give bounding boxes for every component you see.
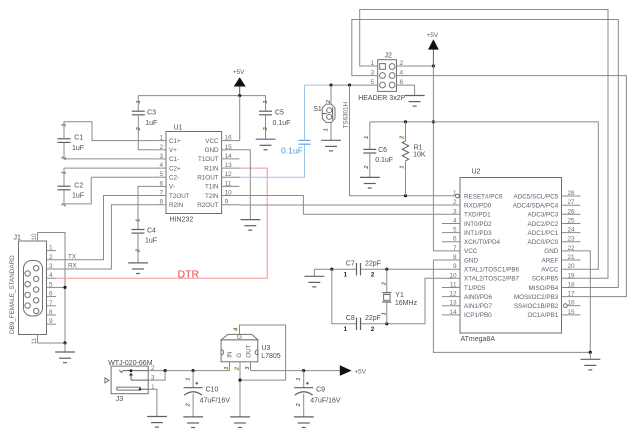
wire J2 pin2 to +5V	[397, 65, 434, 67]
node J3 pins junction	[164, 369, 167, 372]
wire input rail J3 to U3	[148, 370, 229, 372]
svg-text:V-: V-	[169, 184, 175, 191]
svg-text:AIN1/PD7: AIN1/PD7	[464, 303, 492, 310]
svg-text:18: 18	[568, 282, 576, 289]
svg-text:6: 6	[453, 236, 457, 243]
capacitor blue 0.1uF	[281, 85, 331, 155]
svg-text:MISO/PB4: MISO/PB4	[529, 285, 559, 292]
svg-text:T1IN: T1IN	[205, 184, 219, 191]
svg-text:2: 2	[371, 271, 375, 278]
svg-text:ADC3/PC3: ADC3/PC3	[528, 212, 559, 219]
svg-text:AVCC: AVCC	[541, 267, 558, 274]
svg-text:GND: GND	[205, 147, 219, 154]
wire U2 GND pin8 to bottom rail	[433, 260, 590, 352]
svg-text:C4: C4	[147, 227, 156, 234]
svg-text:4: 4	[234, 327, 240, 332]
op-amp U1 HIN232 body	[166, 125, 222, 224]
svg-text:WTJ-020-66M: WTJ-020-66M	[108, 360, 153, 367]
svg-text:T1/PD5: T1/PD5	[464, 285, 486, 292]
capacitor C8 22pF	[344, 315, 381, 333]
U2 left pin names	[464, 193, 520, 319]
svg-text:1: 1	[136, 219, 142, 222]
node J1 pin5 junction	[63, 286, 66, 289]
svg-text:1: 1	[159, 135, 163, 142]
svg-text:HIN232: HIN232	[170, 217, 194, 224]
svg-text:1: 1	[62, 124, 68, 127]
svg-text:C8: C8	[346, 315, 355, 322]
capacitor C7 22pF	[344, 260, 381, 278]
regulator U3 L7805	[221, 334, 281, 362]
svg-text:15: 15	[568, 309, 576, 316]
ground left of C7	[305, 269, 325, 287]
svg-text:9: 9	[225, 199, 229, 206]
node J1 pin11 junction	[63, 341, 66, 344]
capacitor C5	[259, 96, 290, 140]
svg-text:VCC: VCC	[205, 138, 219, 145]
svg-text:47uF/16V: 47uF/16V	[310, 398, 341, 405]
switch S1 TS6301H	[313, 85, 349, 140]
svg-text:Y1: Y1	[395, 292, 404, 299]
svg-text:3: 3	[159, 153, 163, 160]
svg-text:ICP1/PB0: ICP1/PB0	[464, 312, 492, 319]
U2 left pin stubs	[442, 205, 460, 315]
svg-text:ATmega8A: ATmega8A	[461, 336, 496, 343]
svg-text:23: 23	[568, 236, 576, 243]
capacitor C3	[132, 96, 157, 150]
node +5V rail junction	[238, 94, 241, 97]
capacitor C6	[363, 122, 393, 177]
ground under S1	[321, 140, 341, 151]
svg-text:28: 28	[568, 190, 576, 197]
ground bottom right	[581, 359, 601, 370]
svg-text:GND: GND	[544, 248, 558, 255]
svg-text:22pF: 22pF	[365, 260, 381, 267]
svg-text:J1: J1	[14, 235, 22, 242]
svg-text:R1: R1	[414, 145, 423, 152]
resistor R1 10K	[400, 122, 426, 196]
node R1 top junction	[404, 120, 407, 123]
svg-text:IN: IN	[227, 351, 234, 358]
svg-text:1: 1	[136, 100, 142, 103]
U1 right pin names	[197, 138, 219, 209]
svg-text:1: 1	[364, 136, 370, 139]
wire J3 pin3 join	[148, 371, 165, 381]
U2 right pin numbers	[568, 190, 576, 316]
svg-text:4: 4	[159, 162, 163, 169]
svg-text:RESET#/PC6: RESET#/PC6	[464, 193, 503, 200]
svg-text:14: 14	[225, 153, 233, 160]
svg-text:+5V: +5V	[233, 69, 245, 76]
svg-text:1uF: 1uF	[145, 120, 157, 127]
svg-text:ADC4/SDA/PC4: ADC4/SDA/PC4	[513, 203, 559, 210]
svg-text:R1OUT: R1OUT	[197, 175, 218, 182]
wire J1 shield bus	[38, 233, 66, 344]
svg-text:1: 1	[344, 271, 348, 278]
svg-text:3: 3	[453, 208, 457, 215]
ground under U1 pin15	[241, 220, 261, 231]
svg-text:1uF: 1uF	[72, 193, 84, 200]
svg-text:U2: U2	[472, 169, 481, 176]
wire J2 pin1 to SCK rail	[360, 10, 608, 279]
ground under C6	[360, 177, 380, 188]
wire DTR red	[56, 168, 267, 278]
svg-text:2: 2	[400, 135, 406, 140]
U1 left pin stubs 1-8	[152, 141, 166, 205]
connector J3 WTJ-020-66M	[105, 360, 155, 403]
wire U3 tab pin4 loop	[234, 325, 286, 380]
wire J2 pin3 to MISO rail	[352, 20, 619, 288]
svg-text:6: 6	[159, 180, 163, 187]
svg-text:10K: 10K	[413, 152, 426, 159]
svg-text:8: 8	[49, 309, 53, 316]
capacitor C10 47uF/16V	[184, 371, 231, 417]
svg-text:G: G	[237, 334, 242, 341]
svg-text:3: 3	[49, 263, 53, 270]
wire output rail U3 to +5V	[251, 370, 340, 372]
svg-text:+5V: +5V	[355, 368, 367, 375]
svg-text:XTAL2/TOSC2/PB7: XTAL2/TOSC2/PB7	[464, 276, 520, 283]
svg-text:C1-: C1-	[169, 156, 179, 163]
svg-text:1: 1	[381, 312, 387, 315]
wire blue R1OUT to reset cap	[240, 144, 305, 177]
svg-text:2: 2	[371, 326, 375, 333]
svg-text:C2-: C2-	[169, 175, 179, 182]
svg-text:XCK/T0/PD4: XCK/T0/PD4	[464, 239, 501, 246]
svg-text:0.1uF: 0.1uF	[375, 157, 393, 164]
svg-text:C2: C2	[74, 182, 83, 189]
capacitor C2	[58, 168, 153, 207]
svg-text:16MHz: 16MHz	[395, 300, 418, 307]
svg-text:5: 5	[453, 227, 457, 234]
svg-text:16: 16	[225, 135, 233, 142]
U3 pin3 stem	[245, 362, 251, 371]
svg-text:VCC: VCC	[464, 248, 478, 255]
svg-text:8: 8	[453, 254, 457, 261]
node S1 junction	[329, 84, 332, 87]
node bottom ground junction	[589, 351, 592, 354]
wire J2 pin6 to ground	[397, 85, 415, 95]
node U3 tab ground junction	[238, 379, 241, 382]
svg-text:2: 2	[453, 199, 457, 206]
svg-text:4: 4	[49, 272, 53, 279]
svg-text:AREF: AREF	[542, 257, 559, 264]
wire reset drop	[349, 85, 351, 196]
crystal Y1 16MHz	[381, 269, 417, 324]
svg-text:MOSI/OC2/PB3: MOSI/OC2/PB3	[514, 294, 559, 301]
power +5V arrow right	[340, 365, 367, 376]
wire reset row to U2 pin1	[350, 195, 456, 197]
U3 pin2 stem to ground	[235, 362, 241, 417]
svg-text:1uF: 1uF	[72, 145, 84, 152]
node +5V C6 R1 rail junction	[432, 120, 435, 123]
node R1 bottom junction	[404, 194, 407, 197]
U2 right pin stubs	[562, 196, 581, 315]
svg-text:SCK/PB5: SCK/PB5	[532, 276, 559, 283]
U2 pin16 bubble	[564, 304, 568, 308]
svg-text:20: 20	[568, 263, 576, 270]
U3 pin1 stem	[224, 362, 230, 371]
svg-text:DTR: DTR	[178, 268, 200, 280]
svg-text:26: 26	[568, 208, 576, 215]
wire bus to ground	[64, 343, 66, 352]
svg-text:1: 1	[324, 128, 330, 131]
capacitor C4	[132, 186, 158, 262]
wire VCC drop to U1 pin16	[239, 96, 241, 141]
svg-text:OUT: OUT	[245, 344, 252, 357]
ground under C5	[256, 139, 276, 150]
svg-text:19: 19	[568, 272, 576, 279]
svg-text:11: 11	[225, 180, 232, 187]
wire U2 GND pin22 down	[580, 251, 590, 353]
svg-text:TS6301H: TS6301H	[343, 101, 350, 128]
svg-text:6: 6	[49, 291, 53, 298]
svg-text:C10: C10	[206, 387, 219, 394]
svg-text:SS#/OC1B/PB2: SS#/OC1B/PB2	[514, 303, 559, 310]
svg-text:TX: TX	[68, 253, 77, 260]
svg-text:13: 13	[449, 300, 457, 307]
svg-text:2: 2	[186, 403, 192, 408]
svg-text:12: 12	[225, 171, 233, 178]
svg-text:1: 1	[400, 166, 406, 169]
svg-text:27: 27	[568, 199, 576, 206]
pin stubs J1 pins 1-9	[47, 251, 57, 325]
svg-text:1uF: 1uF	[145, 237, 157, 244]
svg-text:R2OUT: R2OUT	[197, 202, 218, 209]
svg-text:1: 1	[151, 384, 155, 391]
U2 right pin names	[513, 193, 559, 319]
ground under J1	[55, 352, 75, 363]
svg-text:12: 12	[449, 291, 457, 298]
node Y1 top junction	[385, 268, 388, 271]
svg-text:1: 1	[296, 378, 302, 381]
U1 right pin numbers	[225, 135, 233, 206]
wire C6 R1 AVCC rail	[370, 122, 599, 269]
svg-text:1: 1	[344, 326, 348, 333]
wire J2 pin4 to MOSI rail	[397, 76, 627, 297]
svg-text:7: 7	[159, 190, 163, 197]
node reset drop junction	[348, 84, 351, 87]
ground under C4	[128, 263, 148, 274]
pin 10 stub J1	[31, 233, 38, 242]
svg-text:5: 5	[370, 79, 374, 86]
svg-text:T2IN: T2IN	[205, 193, 219, 200]
svg-text:2: 2	[159, 144, 163, 151]
svg-text:C9: C9	[316, 387, 325, 394]
svg-text:U3: U3	[262, 345, 271, 352]
svg-text:RX: RX	[68, 263, 78, 270]
svg-text:G: G	[236, 353, 243, 358]
svg-text:ADC0/PC0: ADC0/PC0	[528, 239, 559, 246]
U1 left pin numbers	[159, 135, 163, 206]
svg-text:ADC2/PC2: ADC2/PC2	[528, 221, 559, 228]
svg-text:RXD/PD0: RXD/PD0	[464, 203, 492, 210]
U2 left pin numbers	[449, 190, 457, 316]
svg-text:2: 2	[151, 365, 155, 372]
ground under J3	[147, 417, 167, 428]
svg-text:8: 8	[159, 199, 163, 206]
power +5V above U1	[233, 69, 246, 96]
node XTAL1 C7 junction	[330, 268, 333, 271]
svg-text:INT1/PD3: INT1/PD3	[464, 230, 492, 237]
wire reset net to J2 pin5	[331, 84, 378, 86]
svg-text:XTAL1/TOSC1/PB6: XTAL1/TOSC1/PB6	[464, 267, 520, 274]
wire to bottom ground	[589, 352, 591, 359]
svg-text:7: 7	[49, 300, 53, 307]
svg-text:13: 13	[225, 162, 233, 169]
wire XTAL1 row	[314, 268, 442, 270]
wire RX	[56, 205, 152, 269]
svg-text:0.1uF: 0.1uF	[281, 145, 303, 155]
svg-text:24: 24	[568, 227, 576, 234]
svg-text:5: 5	[159, 171, 163, 178]
svg-text:C2+: C2+	[169, 165, 181, 172]
svg-text:14: 14	[449, 309, 457, 316]
svg-text:10: 10	[449, 272, 457, 279]
pin numbers J1 1-9	[49, 245, 53, 326]
svg-text:AIN0/PD6: AIN0/PD6	[464, 294, 492, 301]
svg-text:22pF: 22pF	[365, 315, 381, 322]
wire +5V rail over U1	[138, 95, 265, 97]
svg-text:7: 7	[453, 245, 457, 252]
svg-text:C3: C3	[147, 109, 156, 116]
svg-text:21: 21	[568, 254, 576, 261]
node C10 junction	[192, 369, 195, 372]
ground under C9	[294, 417, 314, 428]
svg-text:10: 10	[31, 233, 38, 241]
wire U1 GND pin15	[240, 150, 251, 220]
svg-text:17: 17	[568, 291, 576, 298]
svg-text:9: 9	[49, 318, 53, 325]
wire J3 pin1 to ground	[148, 389, 157, 416]
svg-text:22: 22	[568, 245, 576, 252]
svg-text:V+: V+	[169, 147, 177, 154]
svg-text:11: 11	[450, 282, 457, 289]
node J2 pin2 junction	[432, 64, 435, 67]
svg-text:J2: J2	[385, 53, 393, 60]
wire TX	[56, 196, 152, 260]
svg-text:C5: C5	[275, 109, 284, 116]
svg-text:J3: J3	[116, 396, 124, 403]
svg-text:L7805: L7805	[261, 353, 281, 360]
U1 left pin names	[169, 138, 190, 209]
svg-text:11: 11	[31, 337, 38, 344]
svg-text:1: 1	[224, 367, 230, 370]
ground under C10	[183, 417, 203, 428]
svg-text:1: 1	[263, 100, 269, 103]
wire crystal left leg	[331, 269, 333, 324]
pin 11 stub J1	[31, 335, 38, 345]
svg-text:T2OUT: T2OUT	[169, 193, 190, 200]
wire +5V down to U2 VCC	[433, 66, 442, 251]
node C9 junction	[302, 369, 305, 372]
op-amp U2 ATmega8A body	[460, 169, 562, 344]
U1 right pin stubs 16-9	[222, 141, 240, 205]
svg-text:U1: U1	[174, 125, 183, 132]
U2 pin1 reset bubble	[456, 194, 460, 198]
svg-text:1: 1	[49, 245, 53, 252]
svg-text:2: 2	[49, 254, 53, 261]
svg-text:T1OUT: T1OUT	[198, 156, 219, 163]
svg-text:DB9_FEMALE_STANDARD: DB9_FEMALE_STANDARD	[9, 255, 16, 334]
svg-text:INT0/PD2: INT0/PD2	[464, 221, 492, 228]
connector J1 DB9 female	[19, 241, 47, 335]
capacitor C9 47uF/16V	[294, 371, 341, 417]
ground under U3	[230, 417, 250, 428]
svg-text:9: 9	[453, 263, 457, 270]
svg-text:R1IN: R1IN	[204, 165, 219, 172]
ground under J2 pin6	[405, 96, 425, 107]
wire XTAL2 row	[332, 278, 442, 324]
svg-text:ADC5/SCL/PC5: ADC5/SCL/PC5	[514, 193, 559, 200]
svg-text:TXD/PD1: TXD/PD1	[464, 212, 491, 219]
svg-text:16: 16	[568, 300, 576, 307]
svg-text:0.1uF: 0.1uF	[273, 120, 291, 127]
svg-text:S1: S1	[313, 106, 322, 113]
wire U1 R2OUT to U2 RXD	[240, 204, 443, 206]
svg-text:C1+: C1+	[169, 138, 181, 145]
svg-text:2: 2	[296, 403, 302, 408]
node Y1 bottom junction	[385, 322, 388, 325]
svg-text:1: 1	[62, 171, 68, 174]
connector J2 HEADER 3x2P	[358, 53, 405, 102]
svg-text:10: 10	[225, 190, 233, 197]
svg-text:2: 2	[364, 165, 370, 170]
wire U1 T2IN to U2 TXD	[240, 196, 443, 215]
power +5V above J2	[427, 32, 439, 66]
svg-text:47uF/16V: 47uF/16V	[200, 398, 231, 405]
svg-text:R2IN: R2IN	[169, 202, 184, 209]
svg-text:C6: C6	[378, 147, 387, 154]
svg-text:5: 5	[49, 281, 53, 288]
svg-text:GND: GND	[464, 257, 478, 264]
svg-text:1: 1	[453, 190, 457, 197]
svg-text:OC1A/PB1: OC1A/PB1	[527, 312, 558, 319]
svg-text:ADC1/PC1: ADC1/PC1	[528, 230, 559, 237]
svg-text:4: 4	[453, 218, 457, 225]
svg-text:15: 15	[225, 144, 233, 151]
svg-text:1: 1	[186, 378, 192, 381]
capacitor C1	[58, 122, 153, 161]
svg-text:HEADER 3x2P: HEADER 3x2P	[358, 95, 405, 102]
svg-text:C1: C1	[74, 134, 83, 141]
svg-text:+5V: +5V	[427, 32, 439, 39]
svg-text:25: 25	[568, 218, 576, 225]
svg-text:C7: C7	[346, 260, 355, 267]
